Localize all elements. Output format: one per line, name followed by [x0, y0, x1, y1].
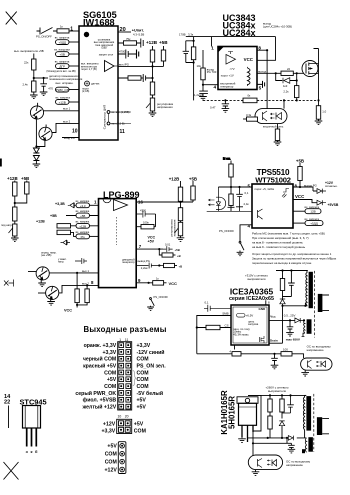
startup resistor upper	[269, 395, 271, 399]
FB lower wire	[197, 354, 304, 358]
connector J3 peripheral	[118, 442, 126, 474]
T3 aux winding	[308, 437, 313, 452]
svg-text:+5В: +5В	[296, 158, 304, 163]
oval input 12V	[76, 223, 90, 228]
svg-text:+6,5V: +6,5V	[246, 314, 254, 318]
svg-text:+5V: +5V	[107, 377, 117, 383]
svg-text:0,47: 0,47	[210, 105, 216, 109]
svg-text:PS_ON/OFF: PS_ON/OFF	[36, 35, 52, 39]
opto LED	[216, 187, 220, 211]
potentiometer voltage adjust	[150, 98, 154, 111]
wire pin RV	[62, 137, 79, 139]
svg-text:470: 470	[48, 87, 53, 91]
svg-text:VCC: VCC	[244, 57, 254, 62]
svg-text:UC284x: UC284x	[222, 28, 255, 38]
svg-text:+5В: +5В	[80, 214, 85, 218]
svg-text:(на +5В): (на +5В)	[41, 253, 51, 257]
capacitor 4700 right of U4	[136, 211, 155, 218]
svg-text:вых 2: вых 2	[82, 281, 89, 285]
connector J1 cells	[119, 343, 131, 409]
resistor feedback	[128, 76, 141, 80]
resistor lower	[13, 207, 17, 221]
wire pin20	[118, 31, 131, 33]
corner marker	[218, 47, 224, 53]
svg-text:вкл.(2,2 В): вкл.(2,2 В)	[112, 122, 125, 126]
MOSFET Q3 power switch	[302, 61, 318, 77]
oval input DGR	[56, 64, 70, 69]
opto transistor	[308, 360, 312, 369]
aux core	[307, 319, 312, 334]
svg-text:1: 1	[70, 27, 73, 33]
svg-text:+12В: +12В	[59, 100, 66, 104]
opto LED	[272, 460, 277, 467]
svg-text:сигнальн.: сигнальн.	[325, 184, 338, 188]
svg-text:запрет откл: запрет откл	[99, 54, 114, 57]
resistor divider upper	[150, 82, 154, 95]
svg-text:PG: PG	[81, 235, 86, 239]
transformer T3 primary winding	[303, 395, 304, 438]
oval input PG	[76, 234, 90, 239]
svg-text:порог +1V: порог +1V	[221, 73, 234, 77]
svg-text:Защита по превышению напряжени: Защита по превышению напряжений включает…	[252, 257, 337, 261]
svg-text:<7V: <7V	[230, 67, 235, 71]
svg-text:3,3к: 3,3к	[188, 33, 194, 37]
IC U6 body	[231, 305, 269, 345]
lower wire	[253, 438, 291, 443]
wire to pin5	[218, 177, 252, 194]
svg-text:COM: COM	[104, 384, 116, 390]
wire pin16 rail	[136, 200, 193, 208]
diode aux	[61, 240, 71, 245]
svg-text:вых 1: вых 1	[82, 269, 89, 273]
resistor low a	[232, 352, 241, 356]
svg-text:45,3% макс: 45,3% макс	[233, 332, 249, 336]
diode +5VSB	[317, 200, 326, 205]
svg-text:вых. исправн.: вых. исправн.	[56, 81, 74, 85]
+260V rail	[248, 394, 306, 396]
capacitor at 75k	[141, 39, 143, 48]
svg-text:1,2мк3: 1,2мк3	[194, 93, 203, 97]
connector J2 ATX12V	[117, 419, 132, 433]
transistor Q2	[39, 127, 52, 140]
ground opto	[301, 370, 309, 376]
svg-text:3,3к: 3,3к	[246, 113, 252, 117]
ground	[222, 109, 230, 113]
svg-text:(для UC284x +10-30В): (для UC284x +10-30В)	[263, 24, 292, 28]
SMB capacitor pin	[204, 305, 231, 312]
wire divider	[152, 66, 154, 82]
wire opto to rail	[283, 100, 285, 108]
svg-text:вых 2: вых 2	[63, 120, 71, 124]
title U1	[70, 10, 168, 135]
svg-text:вх. запрета: вх. запрета	[55, 60, 70, 64]
svg-text:оранж. +3,3V: оранж. +3,3V	[84, 343, 117, 349]
resistor Ra	[76, 273, 78, 289]
aux rail	[248, 437, 305, 439]
svg-text:SMB: SMB	[222, 312, 228, 316]
ground	[30, 95, 38, 99]
ground	[40, 92, 48, 96]
notch arc	[103, 199, 111, 203]
svg-text:WT751002: WT751002	[255, 176, 291, 185]
svg-text:напряжения: напряжения	[173, 219, 177, 236]
resistor second row	[57, 230, 71, 234]
svg-text:вкл./PG: вкл./PG	[119, 62, 129, 66]
svg-text:вх. запрета: вх. запрета	[55, 36, 70, 40]
wire VCC out	[293, 200, 317, 203]
aux diode	[295, 318, 305, 323]
resistor Rb	[86, 285, 88, 289]
diode D2	[33, 156, 39, 165]
GND pin stub	[265, 300, 267, 305]
svg-text:20: 20	[125, 415, 129, 419]
transistor Q5	[36, 267, 49, 280]
svg-text:IW1688: IW1688	[83, 18, 115, 28]
TO-92 legs	[27, 428, 37, 447]
svg-text:черный COM: черный COM	[83, 356, 116, 363]
connector J1 20-pin frame	[118, 342, 132, 410]
svg-text:4700: 4700	[140, 209, 146, 213]
T3 secondary	[317, 417, 322, 435]
snubber capacitor	[282, 395, 294, 413]
ground rail	[207, 210, 252, 212]
core gap dashed	[313, 394, 315, 452]
base wire Q2 to pin	[52, 123, 79, 132]
oval input 12V	[56, 100, 70, 105]
TO220 legs	[242, 425, 253, 442]
svg-text:5: 5	[259, 85, 262, 90]
svg-text:вх. запрета: вх. запрета	[56, 96, 71, 100]
svg-text:1: 1	[119, 338, 121, 342]
wire pin1 drop	[211, 37, 213, 47]
right divider +12V/+5V	[181, 181, 194, 187]
transistor Q6	[46, 286, 59, 299]
capacitor 2.2uF	[136, 263, 163, 269]
svg-text:(блокируется вкл. за 4В): (блокируется вкл. за 4В)	[46, 69, 75, 73]
capacitor feedback	[143, 74, 145, 82]
aux winding	[302, 320, 305, 336]
diode D1	[33, 148, 39, 153]
opto transistor	[263, 111, 268, 121]
oval input 3.3V	[76, 203, 90, 208]
svg-text:10: 10	[118, 415, 122, 419]
resistor 10k comp	[202, 50, 204, 68]
collector wire Q1-Q2 down	[36, 119, 45, 147]
svg-text:запуска: запуска	[248, 322, 259, 326]
svg-text:напряжению: напряжению	[307, 348, 325, 352]
capacitor near out1	[75, 258, 87, 264]
oval inhibit 12V	[305, 209, 321, 214]
TO220 KA1H0165R tab	[237, 397, 258, 404]
capacitor comp	[199, 91, 208, 96]
svg-text:max 650V: max 650V	[286, 338, 301, 342]
wire sense to detector	[34, 77, 48, 79]
svg-text:VCC: VCC	[169, 281, 178, 286]
aux diode	[288, 436, 293, 441]
PWM IC U2 UC3843 body	[218, 47, 257, 90]
svg-text:COM: COM	[134, 428, 146, 434]
svg-text:12В: 12В	[310, 210, 315, 214]
ground	[177, 238, 185, 242]
svg-text:выход: выход	[258, 69, 266, 73]
svg-text:ICE3A0365: ICE3A0365	[230, 286, 274, 296]
svg-text:VCC: VCC	[64, 309, 72, 313]
svg-text:порог +5, 1кОм: порог +5, 1кОм	[255, 187, 275, 191]
svg-text:вых 1: вых 1	[63, 107, 71, 111]
svg-text:вых. выпрямителя +5В: вых. выпрямителя +5В	[14, 49, 44, 53]
ground	[33, 164, 41, 168]
resistor right +5V	[191, 186, 195, 200]
svg-text:+5ДД: +5ДД	[58, 41, 65, 45]
svg-text:+12V: +12V	[105, 467, 118, 473]
snubber resistor	[281, 395, 283, 399]
ground leg1	[238, 439, 246, 443]
svg-text:+В: +В	[179, 265, 183, 269]
leg wires	[242, 395, 261, 443]
svg-text:нагр.: нагр.	[58, 261, 64, 264]
svg-text:вход РВ: вход РВ	[64, 136, 75, 140]
title U4	[36, 177, 197, 313]
internal pulse glyph	[282, 189, 289, 198]
svg-text:порог 1,7 (В): порог 1,7 (В)	[81, 67, 97, 71]
svg-text:под нагр.: под нагр.	[1, 224, 13, 227]
svg-text:COM: COM	[105, 460, 117, 466]
svg-text:VCC: VCC	[295, 194, 305, 199]
capacitor 0.47	[222, 100, 229, 108]
svg-text:22: 22	[287, 67, 291, 71]
resistor R +12V rail	[150, 50, 154, 62]
svg-text:+5В: +5В	[59, 53, 64, 57]
IC U5 TPS5510 body	[252, 184, 293, 228]
wire Q5 to out1 pin	[49, 272, 98, 274]
svg-text:4: 4	[213, 84, 216, 89]
svg-text:желтый +12V: желтый +12V	[82, 404, 117, 411]
svg-text:+5V: +5V	[137, 398, 147, 404]
ground	[199, 97, 207, 101]
resistor 2.4k	[32, 81, 36, 92]
wire pin 75k	[118, 42, 141, 44]
T2 secondary	[318, 294, 323, 312]
svg-text:8: 8	[258, 46, 261, 51]
X mark bottom-left	[4, 462, 19, 480]
svg-text:1: 1	[211, 46, 214, 51]
svg-text:+5В: +5В	[175, 248, 180, 252]
base wire Q1 to pin	[44, 110, 79, 112]
ground	[11, 238, 19, 242]
Vcc wire	[269, 319, 295, 321]
svg-text:2,2мк: 2,2мк	[141, 266, 149, 270]
svg-text:М ош.: М ош.	[223, 157, 231, 161]
gate drive wire	[257, 72, 306, 74]
opto transistor	[258, 459, 263, 468]
svg-text:+5VSB: +5VSB	[328, 203, 339, 207]
svg-text:2,2к: 2,2к	[283, 89, 289, 93]
svg-text:LPG-899: LPG-899	[103, 190, 140, 200]
opto LED	[276, 113, 282, 120]
svg-text:+12В: +12В	[169, 177, 180, 182]
wire labels J1 right	[137, 343, 167, 411]
svg-text:PG 700: PG 700	[207, 70, 217, 74]
wire pin8 out	[293, 187, 317, 191]
top supply rail	[186, 36, 276, 38]
svg-text:+5V: +5V	[148, 240, 155, 244]
svg-text:COM: COM	[105, 452, 117, 458]
svg-text:напряжению: напряжению	[286, 463, 304, 467]
op-amp inside U2	[226, 55, 236, 65]
svg-text:+12В: +12В	[79, 224, 86, 228]
svg-text:красный +5V: красный +5V	[83, 363, 117, 370]
op-amp U1 SG6105/IW1688 body	[79, 26, 118, 140]
svg-text:вывод PG: вывод PG	[138, 259, 150, 263]
capacitor 0.01	[163, 246, 173, 252]
svg-text:0,1: 0,1	[245, 191, 249, 195]
internal transistor	[258, 209, 263, 219]
optocoupler U7	[301, 358, 332, 370]
svg-text:переключенных на выходе в кажд: переключенных на выходе в каждом случае	[252, 261, 312, 265]
svg-text:4.3–5.5В: 4.3–5.5В	[133, 33, 144, 37]
transistor STC945 TO-92 body	[23, 406, 41, 429]
potentiometer	[13, 224, 17, 236]
svg-text:2,4к: 2,4к	[23, 83, 29, 87]
oscillator winding inside U2	[248, 68, 251, 85]
junction	[151, 77, 153, 79]
resistor 3.3k startup	[191, 47, 195, 60]
svg-text:+5V: +5V	[134, 421, 144, 427]
svg-text:-12V синий: -12V синий	[137, 349, 165, 356]
svg-text:PS_ONOFF: PS_ONOFF	[154, 295, 169, 299]
internal mosfet	[260, 336, 265, 343]
wire +5V sense	[33, 54, 35, 60]
resistor 2.4k	[229, 194, 233, 206]
wire to pin4	[203, 84, 218, 86]
supervisor IC U4 LPG-899 body	[99, 199, 137, 288]
snubber capacitor	[288, 271, 295, 297]
pin circle 17	[107, 111, 110, 114]
svg-text:Супервизор ЦАП: Супервизор ЦАП	[103, 105, 107, 130]
oval input +5V	[56, 52, 70, 57]
op-amp comparator inside U1	[105, 61, 115, 72]
junction	[151, 65, 153, 67]
CS pin resistor	[197, 327, 231, 329]
diode input 3.3V	[68, 203, 76, 208]
svg-text:(5В): (5В)	[101, 46, 106, 50]
pin numbers J1	[118, 338, 129, 419]
opto LED	[321, 361, 326, 367]
resistor 3.3k opto	[247, 117, 258, 121]
svg-text:+3,3: +3,3	[80, 204, 86, 208]
svg-text:+5В: +5В	[189, 177, 197, 182]
ground Q6	[47, 302, 55, 306]
svg-text:PWR_OK: PWR_OK	[56, 88, 69, 92]
svg-text:(2,1В): (2,1В)	[82, 89, 89, 93]
capacitor 0.1	[236, 187, 243, 211]
dashed internal divider	[116, 217, 118, 245]
wire to primary bottom	[283, 303, 306, 343]
svg-text:серый PWR_OK: серый PWR_OK	[75, 390, 116, 397]
wire pin PG	[118, 61, 164, 66]
svg-text:генератор: генератор	[122, 261, 135, 264]
wire pin4 PS_ONOFF	[240, 225, 252, 242]
svg-text:5H0165R: 5H0165R	[228, 396, 237, 429]
ground Q5	[38, 283, 46, 287]
svg-text:4700: 4700	[119, 50, 126, 54]
aux capacitor	[288, 443, 295, 449]
svg-text:ДГР: ДГР	[59, 65, 65, 69]
ground	[274, 142, 282, 146]
pin8 wire to opto	[257, 49, 319, 110]
wire pin7	[136, 248, 163, 250]
svg-text:10: 10	[72, 129, 78, 135]
svg-text:вх. напряж.: вх. напряж.	[76, 200, 90, 203]
resistor 75k	[124, 41, 137, 45]
svg-text:Опрос защиты происходит по др.: Опрос защиты происходит по др. напряжени…	[252, 252, 332, 256]
svg-text:PS_ONOFF: PS_ONOFF	[219, 229, 234, 233]
svg-text:20: 20	[120, 27, 126, 33]
wire VCC drop	[257, 37, 276, 61]
svg-text:+5V: +5V	[137, 405, 147, 411]
svg-text:+5В: +5В	[159, 40, 168, 45]
svg-text:GND: GND	[259, 307, 267, 311]
TO220 body	[239, 403, 257, 425]
terminal stub mid-left	[4, 280, 14, 287]
pin-1 index dot	[84, 32, 89, 37]
resistor input 12V	[57, 224, 71, 228]
svg-text:вх. нагрузки: вх. нагрузки	[54, 48, 70, 52]
svg-text:16: 16	[138, 200, 143, 205]
transistor Q1	[30, 106, 43, 119]
svg-text:2,4к: 2,4к	[244, 202, 250, 206]
svg-text:-5V белый: -5V белый	[137, 390, 164, 397]
pin4 stub	[234, 345, 236, 350]
svg-text:генератор: генератор	[220, 84, 233, 88]
svg-text:Vcc: Vcc	[270, 315, 276, 319]
svg-text:1,0: 1,0	[322, 110, 326, 114]
junction	[33, 77, 35, 79]
svg-text:При отключении напряжений (выв: При отключении напряжений (выв. 3, 6, 7)	[252, 236, 309, 240]
oval output PWR_OK	[56, 87, 70, 92]
svg-text:+3,3V: +3,3V	[101, 428, 115, 434]
winding end bar	[302, 449, 305, 453]
svg-text:+5В: +5В	[50, 214, 57, 218]
svg-text:CS: CS	[224, 324, 228, 328]
svg-text:на выв.9 - появляется текущий: на выв.9 - появляется текущий уровень	[252, 245, 306, 249]
wire pin18 cap 4700	[118, 53, 136, 55]
ground opto	[252, 470, 260, 476]
wire labels J1 left	[75, 343, 116, 411]
svg-text:+В: +В	[177, 254, 181, 258]
svg-text:0,5...25V: 0,5...25V	[284, 314, 296, 318]
svg-text:вторичной цепь: вторичной цепь	[263, 124, 284, 128]
wire to pin1	[69, 30, 79, 32]
resistor low b 100	[281, 352, 292, 356]
resistor +12V	[13, 182, 17, 196]
snubber resistor	[282, 271, 284, 279]
potentiometer right	[178, 222, 182, 236]
svg-text:Выходные разъемы: Выходные разъемы	[84, 325, 167, 334]
svg-text:Drain: Drain	[270, 338, 278, 342]
sense input circle inside U1	[85, 81, 90, 86]
svg-text:+5V: +5V	[107, 444, 117, 450]
left edge tick	[0, 159, 2, 167]
resistor 1k	[57, 29, 69, 33]
resistor 1.0 source sense	[318, 100, 320, 105]
svg-text:+3,3V: +3,3V	[102, 350, 116, 356]
aux capacitor	[287, 320, 294, 332]
pin circle 16	[107, 122, 110, 125]
svg-text:вх. вкл.(1,25В): вх. вкл.(1,25В)	[112, 110, 130, 114]
svg-text:COM: COM	[137, 357, 149, 363]
optocoupler to TPS	[216, 197, 226, 209]
